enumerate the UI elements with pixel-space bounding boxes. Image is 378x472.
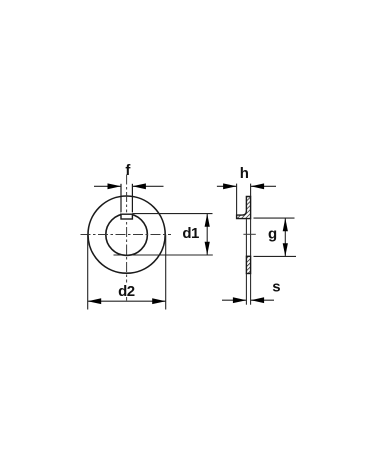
dimension f arrow left: [108, 183, 122, 189]
dimension h extension line left: [236, 184, 238, 215]
bent tab tip rectangle (white backing hides bore arc): [121, 212, 133, 219]
inner circle (bore d1): [106, 214, 148, 256]
dimension s line right: [251, 299, 274, 301]
dimension d1 extension line bottom: [114, 254, 213, 256]
dimension d1 arrow up: [205, 214, 210, 227]
dimension h line left: [217, 185, 237, 187]
dimension d1 arrow down: [205, 242, 210, 255]
svg-text:d1: d1: [182, 225, 199, 242]
dimension d1 line: [206, 214, 208, 255]
dimension g arrow up: [283, 218, 288, 231]
dimension d2 arrow left: [88, 298, 102, 304]
dimension f arrow right: [132, 183, 146, 189]
section lower part (hatched): [246, 256, 250, 273]
bore edge line right: [250, 219, 252, 257]
dimension h arrow right: [251, 183, 265, 189]
dimension s arrow left: [233, 297, 247, 303]
dimension d2 line: [88, 300, 166, 302]
section upper part with bent tab (hatched L-shape): [237, 197, 251, 219]
svg-text:h: h: [240, 165, 249, 182]
tab side line right: [131, 184, 133, 214]
dimension h line right: [251, 185, 276, 187]
extension line below left: [245, 274, 247, 305]
dimension g extension line bottom: [254, 255, 297, 257]
dimension g line: [284, 218, 286, 256]
bore edge line left: [245, 219, 247, 257]
dimension f line right: [132, 185, 163, 187]
dimension f line left: [94, 185, 121, 187]
svg-text:f: f: [125, 162, 131, 179]
outer circle of washer: [88, 196, 165, 273]
horizontal centerline: [81, 234, 172, 236]
tab side line left: [120, 184, 122, 214]
dimension d2 extension line right: [165, 235, 167, 310]
dimension g extension line top: [254, 217, 295, 219]
svg-text:g: g: [268, 225, 277, 242]
vertical centerline: [126, 175, 128, 301]
dimension d2 extension line left: [87, 235, 89, 310]
extension line below right: [250, 274, 252, 305]
svg-text:d2: d2: [118, 283, 135, 300]
dimension h arrow left: [223, 183, 237, 189]
centerline tick: [243, 233, 255, 235]
dimension h extension line right: [250, 184, 252, 197]
dimension d2 arrow right: [152, 298, 166, 304]
dimension d2 label backing: [117, 283, 136, 298]
dimension s line left: [222, 299, 246, 301]
dimension s arrow right: [251, 297, 265, 303]
svg-text:s: s: [272, 279, 280, 296]
dimension g arrow down: [283, 243, 288, 256]
dimension d1 extension line top: [132, 213, 212, 215]
